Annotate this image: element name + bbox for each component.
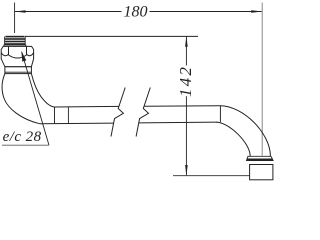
outlet flange: [247, 156, 274, 160]
arrowhead down 142: [185, 165, 188, 176]
bend outer curve: [2, 74, 40, 124]
neck inner line: [5, 71, 32, 73]
elbow inner curve: [216, 122, 250, 156]
pipe top line left part: [54, 105, 119, 108]
neck below nut: [5, 67, 32, 74]
flange dark band: [247, 159, 273, 161]
nut taper bottom line: [5, 66, 32, 68]
nut chamfer arcs: [1, 53, 33, 58]
arrowhead up 142: [185, 36, 188, 47]
joint line 2: [67, 107, 69, 124]
dimension line 180: [15, 11, 121, 13]
break line right: [136, 88, 150, 137]
dimension line 142: [185, 37, 187, 66]
pipe bottom line right part: [139, 121, 217, 124]
extension line top (142 dim): [25, 35, 198, 37]
bend inner curve: [31, 74, 54, 107]
collar above nut: [4, 45, 26, 47]
pipe top line right part: [144, 105, 220, 108]
arrowhead right 180: [251, 10, 262, 13]
hex nut: [1, 46, 33, 66]
extension line left (180 dim): [14, 3, 16, 34]
extension line right / outlet centerline: [261, 3, 263, 156]
svg-text:e/c 28: e/c 28: [3, 129, 42, 145]
threaded stem of inlet fitting: [5, 36, 26, 45]
svg-text:180: 180: [124, 3, 148, 20]
break line left: [111, 88, 125, 137]
nut face line left: [8, 47, 10, 55]
nut face line right: [26, 47, 28, 55]
joint line 1: [54, 107, 56, 124]
elbow outer curve: [220, 106, 270, 157]
arrowhead left 180: [15, 10, 26, 13]
extension line bottom (142 dim): [173, 175, 250, 177]
leader line e/c 28: [22, 52, 49, 145]
outlet cylinder: [250, 165, 273, 180]
pipe bottom line left part: [40, 122, 114, 125]
leader arrowhead: [21, 51, 26, 62]
svg-text:142: 142: [176, 65, 195, 97]
elbow joint line: [219, 106, 221, 122]
leader underline: [2, 144, 49, 146]
